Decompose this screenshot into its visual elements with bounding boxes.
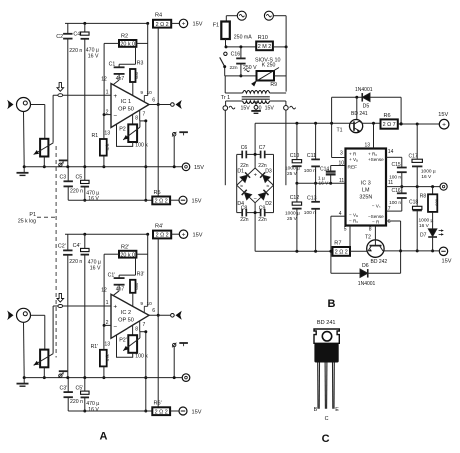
svg-text:IC 3: IC 3 bbox=[361, 180, 371, 186]
svg-text:16 V: 16 V bbox=[88, 53, 99, 59]
svg-text:820: 820 bbox=[434, 198, 439, 205]
svg-text:E: E bbox=[335, 407, 339, 413]
svg-text:B: B bbox=[314, 407, 318, 413]
svg-text:+: + bbox=[113, 93, 117, 100]
svg-text:13: 13 bbox=[104, 341, 110, 347]
svg-text:16 V: 16 V bbox=[419, 223, 430, 229]
svg-text:11: 11 bbox=[339, 178, 344, 184]
svg-text:10: 10 bbox=[147, 90, 153, 96]
svg-text:R3': R3' bbox=[137, 271, 145, 277]
svg-text:8: 8 bbox=[135, 116, 138, 122]
svg-text:13: 13 bbox=[104, 131, 110, 137]
svg-text:+Sense: +Sense bbox=[368, 157, 384, 162]
svg-text:100 k: 100 k bbox=[135, 353, 148, 359]
svg-text:C7: C7 bbox=[259, 145, 266, 151]
svg-text:C2': C2' bbox=[58, 244, 66, 250]
svg-text:C4: C4 bbox=[73, 31, 80, 37]
svg-text:+ Vₐ: + Vₐ bbox=[349, 157, 358, 162]
svg-text:LM: LM bbox=[362, 187, 370, 193]
svg-text:8: 8 bbox=[135, 326, 138, 332]
svg-text:C1: C1 bbox=[109, 62, 116, 68]
svg-text:T2: T2 bbox=[365, 234, 371, 240]
svg-text:REF: REF bbox=[348, 165, 358, 171]
svg-text:100 k: 100 k bbox=[135, 143, 148, 149]
svg-text:C: C bbox=[325, 416, 329, 422]
svg-text:2 Ω 2: 2 Ω 2 bbox=[335, 250, 348, 256]
svg-text:3: 3 bbox=[340, 151, 343, 157]
svg-text:C15: C15 bbox=[392, 162, 401, 168]
svg-text:16 V: 16 V bbox=[319, 181, 330, 187]
svg-text:C11: C11 bbox=[307, 153, 316, 159]
svg-text:2 Ω 7: 2 Ω 7 bbox=[383, 122, 396, 128]
svg-text:C18: C18 bbox=[409, 199, 418, 205]
svg-text:P1: P1 bbox=[29, 212, 36, 218]
svg-text:+: + bbox=[442, 122, 446, 129]
svg-text:6: 6 bbox=[152, 308, 155, 314]
svg-text:1000 µ: 1000 µ bbox=[285, 210, 300, 216]
svg-text:R1': R1' bbox=[91, 344, 99, 350]
svg-text:BD 242: BD 242 bbox=[371, 259, 388, 265]
svg-text:100 n: 100 n bbox=[304, 210, 316, 216]
svg-text:R3: R3 bbox=[137, 61, 144, 67]
svg-text:C12: C12 bbox=[290, 195, 300, 201]
svg-text:10: 10 bbox=[338, 161, 344, 167]
svg-text:100 n: 100 n bbox=[389, 200, 401, 206]
svg-text:R4: R4 bbox=[155, 13, 162, 19]
svg-text:15V: 15V bbox=[193, 22, 203, 28]
svg-text:BD 241: BD 241 bbox=[317, 320, 336, 326]
svg-text:≈: ≈ bbox=[266, 184, 269, 190]
svg-text:7: 7 bbox=[143, 111, 146, 117]
svg-text:R2': R2' bbox=[121, 244, 129, 250]
svg-text:D2: D2 bbox=[265, 201, 272, 207]
svg-text:15V: 15V bbox=[193, 233, 203, 239]
svg-text:25 V: 25 V bbox=[287, 171, 298, 177]
svg-text:D7: D7 bbox=[420, 232, 427, 238]
svg-text:−: − bbox=[113, 113, 117, 120]
svg-text:D5: D5 bbox=[363, 104, 370, 110]
svg-text:250 mA: 250 mA bbox=[234, 35, 252, 41]
svg-text:680: 680 bbox=[134, 282, 139, 290]
svg-text:14: 14 bbox=[388, 149, 394, 155]
svg-text:22n: 22n bbox=[240, 217, 249, 223]
svg-text:BD 241: BD 241 bbox=[351, 111, 368, 117]
svg-text:1N4001: 1N4001 bbox=[358, 281, 376, 287]
svg-text:D3: D3 bbox=[265, 169, 272, 175]
svg-text:15V: 15V bbox=[241, 105, 251, 111]
svg-text:20 k 0: 20 k 0 bbox=[120, 252, 135, 258]
svg-text:13: 13 bbox=[364, 143, 370, 149]
svg-text:220 n: 220 n bbox=[70, 399, 83, 405]
svg-text:220 n: 220 n bbox=[69, 259, 82, 265]
svg-text:2 Ω 2: 2 Ω 2 bbox=[155, 409, 168, 415]
svg-text:4n7: 4n7 bbox=[116, 287, 125, 293]
svg-text:D4: D4 bbox=[237, 201, 244, 207]
svg-text:1 µ: 1 µ bbox=[318, 175, 325, 181]
svg-text:12: 12 bbox=[101, 77, 107, 83]
svg-text:R2: R2 bbox=[121, 34, 128, 40]
svg-text:1: 1 bbox=[106, 300, 109, 306]
svg-text:15V: 15V bbox=[192, 199, 202, 205]
svg-text:T1: T1 bbox=[336, 128, 342, 134]
svg-text:15V: 15V bbox=[442, 258, 452, 264]
svg-text:22n: 22n bbox=[258, 217, 267, 223]
svg-text:A: A bbox=[100, 431, 108, 443]
svg-text:15V: 15V bbox=[192, 409, 202, 415]
svg-text:Tr 1: Tr 1 bbox=[221, 95, 230, 101]
svg-text:C2: C2 bbox=[56, 34, 63, 40]
svg-text:2 Ω 2: 2 Ω 2 bbox=[156, 22, 169, 28]
svg-text:4n7: 4n7 bbox=[116, 76, 125, 82]
svg-text:15V: 15V bbox=[194, 165, 204, 171]
svg-text:C13: C13 bbox=[307, 195, 317, 201]
svg-text:100 n: 100 n bbox=[389, 174, 401, 180]
svg-text:C5': C5' bbox=[76, 385, 84, 391]
svg-text:1000 µ: 1000 µ bbox=[285, 166, 300, 172]
svg-text:C3: C3 bbox=[60, 175, 67, 181]
svg-text:C1': C1' bbox=[108, 272, 116, 278]
svg-text:C5: C5 bbox=[76, 175, 83, 181]
svg-text:16 V: 16 V bbox=[421, 174, 432, 180]
svg-text:6: 6 bbox=[152, 97, 155, 103]
svg-text:OP 50: OP 50 bbox=[118, 107, 134, 113]
svg-text:R8: R8 bbox=[420, 194, 427, 200]
svg-text:C17: C17 bbox=[409, 154, 418, 160]
svg-text:16 V: 16 V bbox=[88, 196, 99, 202]
svg-text:2 Ω 2: 2 Ω 2 bbox=[156, 233, 169, 239]
svg-text:12: 12 bbox=[101, 287, 107, 293]
svg-text:15V: 15V bbox=[438, 112, 448, 118]
svg-text:+: + bbox=[182, 21, 186, 28]
svg-text:R1: R1 bbox=[92, 133, 99, 139]
svg-text:R6: R6 bbox=[384, 113, 391, 119]
svg-text:P2': P2' bbox=[119, 337, 127, 343]
svg-text:325N: 325N bbox=[359, 194, 372, 200]
svg-text:25 k log: 25 k log bbox=[18, 219, 36, 225]
svg-text:15V: 15V bbox=[265, 105, 275, 111]
svg-text:OP 50: OP 50 bbox=[118, 317, 134, 323]
svg-text:C16: C16 bbox=[231, 51, 241, 57]
svg-text:IC 2: IC 2 bbox=[121, 310, 131, 316]
svg-text:0: 0 bbox=[259, 105, 262, 111]
svg-text:+ R₀: + R₀ bbox=[368, 151, 377, 156]
svg-text:5: 5 bbox=[344, 227, 347, 233]
svg-text:− Vₐ: − Vₐ bbox=[349, 213, 358, 218]
svg-text:R10: R10 bbox=[258, 35, 268, 41]
svg-text:47k: 47k bbox=[105, 143, 110, 151]
svg-text:C10: C10 bbox=[290, 153, 300, 159]
svg-text:1: 1 bbox=[106, 89, 109, 95]
svg-text:− R: − R bbox=[372, 220, 380, 225]
svg-text:22n: 22n bbox=[230, 65, 238, 71]
svg-text:R5: R5 bbox=[154, 190, 161, 196]
svg-text:R7: R7 bbox=[334, 240, 341, 246]
svg-text:680: 680 bbox=[134, 71, 139, 79]
svg-text:9: 9 bbox=[140, 301, 143, 307]
svg-text:R6': R6' bbox=[154, 401, 162, 407]
svg-text:+ R: + R bbox=[349, 152, 357, 157]
svg-text:25 V: 25 V bbox=[287, 216, 298, 222]
svg-text:6: 6 bbox=[388, 219, 391, 225]
svg-text:IC 1: IC 1 bbox=[121, 99, 131, 105]
svg-text:7: 7 bbox=[143, 322, 146, 328]
svg-text:2 Ω 2: 2 Ω 2 bbox=[155, 199, 168, 205]
svg-text:9: 9 bbox=[140, 90, 143, 96]
svg-text:C14: C14 bbox=[320, 166, 329, 172]
svg-text:B: B bbox=[328, 298, 336, 310]
svg-text:1N4001: 1N4001 bbox=[355, 87, 373, 93]
svg-text:47k: 47k bbox=[105, 354, 110, 362]
svg-text:8: 8 bbox=[369, 227, 372, 233]
svg-text:R9: R9 bbox=[270, 82, 277, 88]
svg-text:R4': R4' bbox=[155, 223, 163, 229]
svg-text:100 n: 100 n bbox=[304, 168, 316, 174]
svg-text:16 V: 16 V bbox=[88, 407, 99, 413]
svg-text:+: + bbox=[182, 231, 186, 238]
svg-text:16 V: 16 V bbox=[90, 265, 101, 271]
svg-text:C3': C3' bbox=[60, 385, 68, 391]
svg-text:≈: ≈ bbox=[240, 184, 243, 190]
svg-text:1000 µ: 1000 µ bbox=[421, 168, 436, 174]
svg-text:D6: D6 bbox=[362, 263, 369, 269]
svg-text:10: 10 bbox=[147, 301, 153, 307]
svg-text:C16: C16 bbox=[392, 188, 401, 194]
svg-text:−: − bbox=[113, 323, 117, 330]
svg-text:220 n: 220 n bbox=[70, 188, 83, 194]
svg-text:F1: F1 bbox=[213, 23, 219, 29]
svg-text:− R₀: − R₀ bbox=[349, 218, 358, 223]
svg-text:+: + bbox=[113, 304, 117, 311]
svg-text:D1: D1 bbox=[237, 169, 244, 175]
svg-text:C: C bbox=[322, 433, 330, 445]
svg-text:1000 µ: 1000 µ bbox=[419, 217, 434, 223]
svg-text:P2: P2 bbox=[119, 127, 126, 133]
svg-text:C4': C4' bbox=[73, 243, 81, 249]
svg-text:−Sense: −Sense bbox=[368, 214, 384, 219]
svg-text:K 250: K 250 bbox=[262, 63, 276, 69]
svg-text:20 k 0: 20 k 0 bbox=[120, 42, 135, 48]
svg-text:− Vₛ: − Vₛ bbox=[372, 204, 381, 209]
svg-text:2 M 2: 2 M 2 bbox=[258, 44, 271, 50]
svg-text:220 n: 220 n bbox=[69, 48, 82, 54]
svg-text:C6: C6 bbox=[241, 145, 248, 151]
svg-text:11: 11 bbox=[388, 180, 393, 186]
